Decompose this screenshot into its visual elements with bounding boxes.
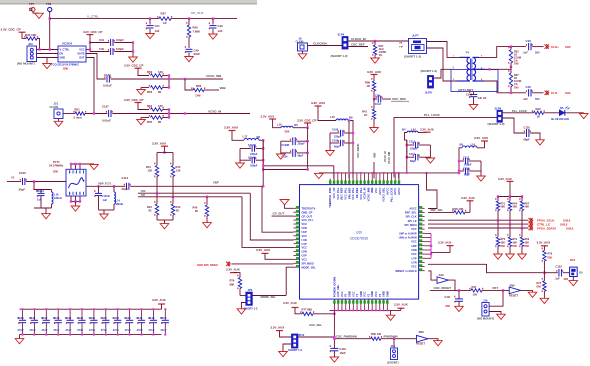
wire T4 secondary bottom to CLK- xyxy=(484,81,526,93)
svg-text:100: 100 xyxy=(473,292,478,296)
svg-text:3.3V_AUX: 3.3V_AUX xyxy=(367,70,381,74)
svg-text:PLL_LOCK: PLL_LOCK xyxy=(389,188,393,202)
svg-text:50V: 50V xyxy=(535,97,540,101)
ground below C119 xyxy=(330,357,339,362)
ground below R69 xyxy=(518,254,527,259)
svg-text:20pF: 20pF xyxy=(122,187,129,191)
svg-text:3.3V_AUX: 3.3V_AUX xyxy=(461,196,475,200)
svg-text:0 ohm: 0 ohm xyxy=(74,116,83,120)
svg-text:CDC_RESET: CDC_RESET xyxy=(434,286,452,290)
wire PLL_LOCK from IC xyxy=(394,118,497,178)
node V_CTRL junction xyxy=(49,17,51,19)
svg-text:C135: C135 xyxy=(77,316,84,320)
svg-text:10nF: 10nF xyxy=(340,351,347,355)
svg-text:DNI: DNI xyxy=(548,255,553,259)
svg-text:1: 1 xyxy=(75,193,76,195)
inductor L15 ferrite xyxy=(336,119,348,121)
ground below R70 xyxy=(494,254,503,259)
svg-text:C131: C131 xyxy=(29,316,36,320)
rail of L16 tank xyxy=(307,128,309,170)
svg-text:U0P: U0P xyxy=(302,230,307,234)
svg-text:GND: GND xyxy=(385,291,389,297)
resistor R68 1K xyxy=(371,78,372,80)
svg-text:33nF: 33nF xyxy=(194,52,201,56)
wire to C107 xyxy=(85,113,107,115)
ground below D16 xyxy=(572,277,574,281)
svg-text:VCC: VCC xyxy=(340,291,344,297)
svg-text:VCXO_IN: VCXO_IN xyxy=(384,151,387,162)
svg-text:VCC: VCC xyxy=(79,49,84,52)
pin column continues down xyxy=(333,310,335,348)
ground at TP7 xyxy=(33,12,39,14)
node drop to VBP corner xyxy=(262,140,264,186)
svg-text:VCC: VCC xyxy=(302,257,308,261)
ground at J16 xyxy=(497,314,506,319)
svg-text:THERMAL_PAD: THERMAL_PAD xyxy=(328,188,332,208)
capacitor C142 47nF xyxy=(152,309,154,320)
wire VCXO filter to IC top pin xyxy=(263,166,334,179)
ground below R42b R43 xyxy=(160,224,169,229)
svg-text:R41: R41 xyxy=(362,109,367,113)
resistor R43 82 lower xyxy=(172,197,174,204)
rail and ground of L15 tank xyxy=(329,133,331,151)
capacitor C100B 220pF xyxy=(281,140,292,142)
svg-text:AVCC: AVCC xyxy=(409,206,416,210)
svg-text:20pF: 20pF xyxy=(19,187,26,191)
svg-text:C114A: C114A xyxy=(248,155,256,159)
svg-text:C100B: C100B xyxy=(282,144,290,147)
svg-text:R42: R42 xyxy=(147,205,152,209)
svg-text:1: 1 xyxy=(79,172,80,174)
svg-text:GND: GND xyxy=(370,291,374,297)
svg-text:3.3V_AUX: 3.3V_AUX xyxy=(474,136,488,140)
svg-text:1uF: 1uF xyxy=(155,29,160,33)
wire into C100 xyxy=(7,181,21,183)
svg-text:ADT4-6WT: ADT4-6WT xyxy=(458,88,473,92)
svg-text:R55: R55 xyxy=(147,120,153,124)
svg-text:47nF: 47nF xyxy=(113,328,120,332)
svg-text:C134: C134 xyxy=(104,73,111,77)
node R30 to pin1 xyxy=(38,48,40,50)
svg-text:AUX_SEL: AUX_SEL xyxy=(309,323,322,327)
capacitor C139 47nF xyxy=(129,309,131,320)
capacitor C108 220pF xyxy=(330,132,339,134)
svg-text:CDC_REF: CDC_REF xyxy=(351,43,365,47)
svg-text:C119: C119 xyxy=(340,347,347,351)
svg-text:C134: C134 xyxy=(65,316,72,320)
svg-text:SN6: SN6 xyxy=(419,330,425,334)
capacitor C106 68pF xyxy=(281,152,292,154)
svg-text:VCXO4: VCXO4 xyxy=(62,42,73,46)
svg-text:3.3V_AUX: 3.3V_AUX xyxy=(152,298,166,302)
svg-text:L14: L14 xyxy=(116,198,121,202)
svg-text:C100: C100 xyxy=(19,171,26,175)
resistor R69 10K DNI xyxy=(521,228,523,237)
svg-text:3.3V_CDC_CP: 3.3V_CDC_CP xyxy=(124,64,144,68)
svg-text:GND_CP: GND_CP xyxy=(302,210,313,214)
svg-text:CDC_REF: CDC_REF xyxy=(392,97,406,101)
T4 body box xyxy=(451,70,498,92)
svg-text:/PWRDWN: /PWRDWN xyxy=(384,334,398,338)
svg-text:SPI_MISO: SPI_MISO xyxy=(302,261,314,265)
svg-text:180pF: 180pF xyxy=(250,164,258,168)
svg-text:C116: C116 xyxy=(524,126,531,130)
resistor R71 10K xyxy=(497,197,499,202)
svg-text:VCC: VCC xyxy=(411,240,417,244)
svg-text:C46: C46 xyxy=(526,39,532,43)
bottom bus of IC xyxy=(330,309,401,311)
ground at R53 xyxy=(140,88,142,90)
svg-text:0.01uF: 0.01uF xyxy=(103,84,112,88)
wire C107 to bias network and VCXO_IN xyxy=(112,113,250,115)
wire L24 to C112 rail xyxy=(405,133,408,141)
wire Y1P xyxy=(138,196,242,198)
resistor R42b 82 lower xyxy=(156,193,158,204)
ground at PLT1 bottom xyxy=(71,206,80,211)
svg-text:1: 1 xyxy=(75,172,76,174)
ground of L10 tank xyxy=(477,176,486,181)
svg-text:TP8: TP8 xyxy=(46,2,52,6)
nested wires into IC left pins xyxy=(262,186,294,232)
svg-text:C107: C107 xyxy=(102,105,109,109)
svg-text:CDC_PWRDWN: CDC_PWRDWN xyxy=(336,334,357,338)
svg-text:U0N: U0N xyxy=(302,226,307,230)
svg-text:C45: C45 xyxy=(99,47,104,51)
svg-text:C130: C130 xyxy=(17,316,24,320)
oscillator VCXO4 block xyxy=(58,46,86,62)
connector J20 (NO MOUNT) xyxy=(27,46,37,62)
wire J21 to R51 xyxy=(63,113,75,115)
svg-text:0.01uF: 0.01uF xyxy=(102,118,111,122)
wire C100 to PLT1 xyxy=(26,181,66,183)
capacitor C100 20pF xyxy=(20,179,21,181)
wire node to VCXO aux row xyxy=(263,169,307,171)
ground below R41 xyxy=(370,128,379,133)
svg-text:R68: R68 xyxy=(365,80,370,84)
wire RST xyxy=(482,289,509,291)
svg-text:3.3V_AUX: 3.3V_AUX xyxy=(311,101,325,105)
ground below C40 xyxy=(209,34,218,39)
bias junction column B xyxy=(168,110,170,118)
svg-text:VCC: VCC xyxy=(363,291,367,297)
svg-text:CLK-: CLK- xyxy=(551,91,558,95)
capacitor C110B 220pF xyxy=(240,148,251,150)
svg-text:U7P: U7P xyxy=(412,256,417,260)
wire JP10 pin to column xyxy=(298,336,335,338)
wire T4 center tap xyxy=(485,68,512,70)
ground at R55 xyxy=(140,118,142,120)
svg-text:J16: J16 xyxy=(483,298,488,302)
capacitor C45 100pF xyxy=(90,51,109,53)
wire MODE_SEL to IC column xyxy=(252,295,286,297)
wire CP_OUT stub at IC xyxy=(272,215,294,217)
capacitor C98 10nF xyxy=(374,98,377,100)
ground below J9 xyxy=(302,51,304,54)
svg-text:C101A: C101A xyxy=(36,189,44,193)
svg-text:68pF: 68pF xyxy=(410,159,416,163)
svg-text:C109: C109 xyxy=(332,138,339,142)
svg-text:3.3V_AUX: 3.3V_AUX xyxy=(394,302,408,306)
svg-text:220pF: 220pF xyxy=(298,143,306,146)
capacitor C137 47nF xyxy=(105,309,107,320)
resistor R55 82 xyxy=(141,117,149,119)
svg-text:U8N: U8N xyxy=(411,248,416,252)
resistor R51 0 ohm xyxy=(73,111,74,113)
resistor R79 DNI xyxy=(542,248,543,250)
wire TP8 down to V_CTRL node xyxy=(49,12,51,50)
right rail to ground C112 C113 xyxy=(429,145,431,158)
wires J16 xyxy=(489,290,503,306)
svg-text:OUTB: OUTB xyxy=(77,53,84,56)
svg-text:DNI: DNI xyxy=(63,66,68,70)
capacitor C46 .1uF 50V xyxy=(526,44,527,46)
svg-text:R56: R56 xyxy=(196,84,202,88)
svg-text:VBP: VBP xyxy=(213,180,219,184)
svg-text:(SHORT 1-2): (SHORT 1-2) xyxy=(488,122,505,126)
wire 3LP6 pin2 to C116 xyxy=(502,118,525,133)
capacitor C130 47nF xyxy=(22,309,24,320)
resistor R36 7.68K xyxy=(188,19,190,25)
capacitor C114A 180pF xyxy=(240,159,251,161)
svg-text:CLOCK_IN: CLOCK_IN xyxy=(351,37,366,41)
capacitor C119 10nF xyxy=(330,345,331,347)
svg-text:1uF HV: 1uF HV xyxy=(478,96,487,100)
svg-text:AUX_SEL: AUX_SEL xyxy=(336,284,340,297)
svg-text:3LP8: 3LP8 xyxy=(425,91,432,95)
ground of cap bank xyxy=(19,335,21,339)
svg-text:3.3V_AUX: 3.3V_AUX xyxy=(224,126,238,130)
svg-text:VCC_PLL: VCC_PLL xyxy=(343,187,347,200)
svg-text:D16: D16 xyxy=(570,258,576,262)
capacitor C105 1uF HV xyxy=(473,92,475,95)
wire MODE_SEL from JP6 to IC xyxy=(286,267,293,295)
svg-text:VCXO_SEL: VCXO_SEL xyxy=(382,187,386,202)
inductor L18 180nH xyxy=(51,190,53,193)
svg-text:VCC_PLL: VCC_PLL xyxy=(359,187,363,200)
svg-text:68pF: 68pF xyxy=(464,173,470,177)
wire VCXO OUT down to J21 row xyxy=(86,58,94,114)
svg-text:1: 1 xyxy=(79,193,80,195)
node at R36 top xyxy=(188,17,190,19)
svg-text:DNI: DNI xyxy=(514,85,519,89)
wire CDC_RESET xyxy=(430,289,471,291)
svg-text:C118: C118 xyxy=(463,166,470,170)
wire VCXO_INB xyxy=(111,78,223,80)
svg-text:47nF: 47nF xyxy=(77,328,84,332)
resistor R30 10K xyxy=(24,36,25,38)
svg-text:1K: 1K xyxy=(364,113,367,117)
svg-text:VCC_PLL: VCC_PLL xyxy=(302,218,314,222)
resistor R64 10K xyxy=(509,197,511,202)
svg-text:3.3V_CDC_CP: 3.3V_CDC_CP xyxy=(124,98,144,102)
svg-text:VCC: VCC xyxy=(411,227,417,231)
rail of pull-ups xyxy=(498,196,522,198)
svg-text:47nF: 47nF xyxy=(89,328,96,332)
svg-text:L17: L17 xyxy=(243,134,248,138)
ground of L16 tank xyxy=(277,154,286,159)
ground below C116 xyxy=(536,140,545,145)
svg-text:R47: R47 xyxy=(472,285,477,289)
svg-text:AS2: AS2 xyxy=(439,273,445,277)
svg-text:OUT: OUT xyxy=(79,57,85,60)
svg-text:Y1: Y1 xyxy=(355,293,359,297)
svg-text:3.3V_AUX: 3.3V_AUX xyxy=(438,241,451,245)
ground at bottom bus xyxy=(390,310,392,315)
svg-text:AVCC: AVCC xyxy=(397,188,401,195)
node R37 bottom xyxy=(510,92,512,94)
node VCXO_IN xyxy=(184,112,186,114)
wire CDC_REFIN drop to IC xyxy=(348,121,350,179)
svg-text:R45: R45 xyxy=(176,165,181,169)
node R35 top xyxy=(510,45,512,47)
tank bottom rail to ground xyxy=(34,207,52,209)
svg-text:C111: C111 xyxy=(445,295,451,299)
svg-text:3LP4: 3LP4 xyxy=(338,33,345,37)
capacitor C118 68pF xyxy=(459,170,464,172)
PLT1 top pins to ground rail xyxy=(70,164,72,169)
svg-text:U7N: U7N xyxy=(411,260,416,264)
svg-text:10nF: 10nF xyxy=(375,102,382,106)
wire L15 to drop x353 xyxy=(348,121,353,179)
svg-text:C44: C44 xyxy=(99,38,104,42)
svg-text:CLK+: CLK+ xyxy=(551,45,559,49)
svg-text:3.3V_CDC_CP: 3.3V_CDC_CP xyxy=(1,27,21,31)
IC top pins xyxy=(329,179,331,185)
resistor R40b 82 on Y1P xyxy=(206,196,208,198)
svg-text:MODE_SEL: MODE_SEL xyxy=(302,265,317,269)
svg-text:3.3V_AUX: 3.3V_AUX xyxy=(420,128,434,132)
capacitor C101A 1uF tank xyxy=(34,182,52,190)
off-page CLK+ SH3 xyxy=(545,44,547,48)
svg-text:180nH: 180nH xyxy=(54,196,62,200)
capacitor C49 33nF xyxy=(185,46,186,48)
resistor R54 130 xyxy=(149,107,150,109)
svg-text:R43: R43 xyxy=(176,205,181,209)
svg-text:RST: RST xyxy=(493,286,499,290)
svg-text:/RESET or /HOLD: /RESET or /HOLD xyxy=(395,269,417,273)
svg-text:47nF: 47nF xyxy=(65,328,72,332)
svg-text:SH3: SH3 xyxy=(565,91,571,95)
svg-text:U1P: U1P xyxy=(302,242,307,246)
capacitor C116 68pF xyxy=(524,130,525,132)
svg-text:SHORT 1-2: SHORT 1-2 xyxy=(288,348,303,352)
capacitor C40 1uF xyxy=(212,19,214,25)
wire R77 to pin column xyxy=(313,313,334,315)
inductor L16 ferrite DNI xyxy=(281,126,293,128)
svg-text:C110B: C110B xyxy=(248,143,256,147)
capacitor C48 .1uF 50V xyxy=(526,90,527,92)
wire D5 to ground xyxy=(565,112,584,114)
ground at JP10 xyxy=(283,344,292,352)
svg-text:DNI: DNI xyxy=(564,277,569,281)
svg-text:T4: T4 xyxy=(466,51,470,55)
svg-text:JP6: JP6 xyxy=(248,288,253,292)
svg-text:(SHUNT): (SHUNT) xyxy=(387,360,399,364)
svg-text:3.3V_AUX: 3.3V_AUX xyxy=(283,301,297,305)
svg-text:SPI_CLK: SPI_CLK xyxy=(406,215,417,219)
wire PWRDWN# xyxy=(381,338,417,340)
svg-text:CP_OUT: CP_OUT xyxy=(302,214,313,218)
svg-text:3LP6: 3LP6 xyxy=(495,106,502,110)
ground below R34 xyxy=(371,58,380,63)
node L17 tank xyxy=(262,140,264,169)
resistor R76 68K xyxy=(237,275,238,277)
ground of C112 C113 xyxy=(426,158,435,163)
node CLOCK_IN at R34 xyxy=(374,40,376,42)
svg-text:VCC: VCC xyxy=(374,291,378,297)
svg-text:C40: C40 xyxy=(218,24,224,28)
svg-text:PLL_LOCK: PLL_LOCK xyxy=(424,113,441,117)
svg-text:SN5: SN5 xyxy=(510,283,516,287)
svg-text:FB_REF: FB_REF xyxy=(355,187,359,198)
svg-text:B6: B6 xyxy=(349,115,353,119)
svg-text:BLUE DIFLED: BLUE DIFLED xyxy=(551,117,569,121)
capacitor C156 47nF xyxy=(164,309,166,320)
svg-text:130: 130 xyxy=(158,70,163,74)
svg-text:VCC: VCC xyxy=(351,291,355,297)
svg-text:U10: U10 xyxy=(356,231,362,235)
svg-text:180nH: 180nH xyxy=(116,202,124,206)
svg-text:(NO MOUNT): (NO MOUNT) xyxy=(477,316,494,320)
capacitor C114 20pF series xyxy=(124,184,125,186)
svg-text:47nF: 47nF xyxy=(101,328,108,332)
capacitor C109 68pF xyxy=(330,142,339,144)
svg-text:3.3V_AUX: 3.3V_AUX xyxy=(226,267,240,271)
svg-text:REF_SEL: REF_SEL xyxy=(405,211,417,215)
svg-text:C101B: C101B xyxy=(102,194,110,198)
svg-text:1uF: 1uF xyxy=(37,197,42,201)
ground below J21 xyxy=(58,119,60,122)
svg-text:68pF: 68pF xyxy=(298,154,304,157)
left rail to ground of tank xyxy=(239,149,241,164)
svg-text:Y0: Y0 xyxy=(11,176,15,180)
svg-text:GND: GND xyxy=(359,291,363,297)
IC right VCC rail xyxy=(425,232,431,234)
svg-text:47nF: 47nF xyxy=(125,328,132,332)
node TP8 net to pin1 xyxy=(49,48,51,50)
svg-text:VCC_CP: VCC_CP xyxy=(332,187,336,198)
svg-text:VBB: VBB xyxy=(374,153,377,158)
capacitor C138 47nF xyxy=(117,309,119,320)
svg-text:VCC: VCC xyxy=(302,222,308,226)
svg-text:100pF: 100pF xyxy=(116,38,124,42)
wires JLP7 to T4 primary xyxy=(427,42,460,58)
svg-text:U1N: U1N xyxy=(302,238,307,242)
svg-text:SH3,8: SH3,8 xyxy=(566,226,574,230)
svg-text:3.3V_AUX: 3.3V_AUX xyxy=(498,177,512,181)
capacitor C134 0.01uF (series) xyxy=(104,76,105,78)
capacitor C107 0.01uF (series) xyxy=(106,111,107,113)
svg-text:RESET: RESET xyxy=(416,342,425,346)
svg-text:68pF: 68pF xyxy=(334,145,340,149)
wire L10 to tank rail xyxy=(459,148,462,173)
svg-text:L15: L15 xyxy=(330,115,335,119)
wire VBP long xyxy=(130,185,262,187)
capacitor C122 .1uF xyxy=(544,272,557,274)
svg-text:C137: C137 xyxy=(101,316,108,320)
svg-text:C105: C105 xyxy=(466,92,473,96)
svg-text:24.576MHz: 24.576MHz xyxy=(49,164,64,168)
wire PLT1 output xyxy=(86,185,125,187)
resistor R77 68K xyxy=(300,311,301,313)
cap bank rails xyxy=(20,308,162,310)
svg-text:C136: C136 xyxy=(89,316,96,320)
svg-text:VBB: VBB xyxy=(220,86,226,90)
wire T4 secondary top to CLK+ xyxy=(479,47,526,58)
inductor L10 ferrite xyxy=(462,146,477,148)
svg-text:220pF: 220pF xyxy=(334,134,342,138)
capacitor C132 47nF xyxy=(45,309,47,320)
